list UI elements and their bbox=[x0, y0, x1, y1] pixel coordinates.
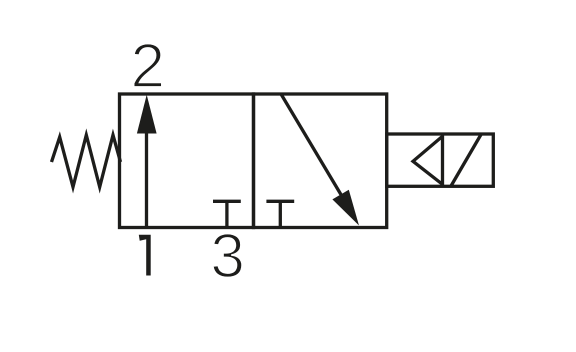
flow path arrow 1->2 (left square) bbox=[145, 130, 148, 228]
solenoid coil box bbox=[387, 134, 494, 186]
arrowhead of flow path 1->2 bbox=[137, 95, 157, 134]
valve body right square (position b) bbox=[254, 94, 387, 228]
arrowhead of diagonal flow path bbox=[332, 190, 359, 226]
svg-text:3: 3 bbox=[210, 222, 244, 291]
blocked port 3 symbol (left square) bbox=[213, 200, 241, 203]
svg-text:2: 2 bbox=[131, 32, 165, 101]
solenoid diagonal stroke bbox=[451, 135, 481, 187]
blocked port symbol (right square) bbox=[266, 200, 294, 203]
port label 1 bbox=[139, 235, 151, 276]
exhaust flow path 2->3 diagonal arrow (right square) bbox=[281, 94, 343, 198]
solenoid triangle bbox=[413, 136, 443, 184]
return spring bbox=[52, 135, 121, 187]
valve body left square (position a) bbox=[120, 94, 254, 228]
